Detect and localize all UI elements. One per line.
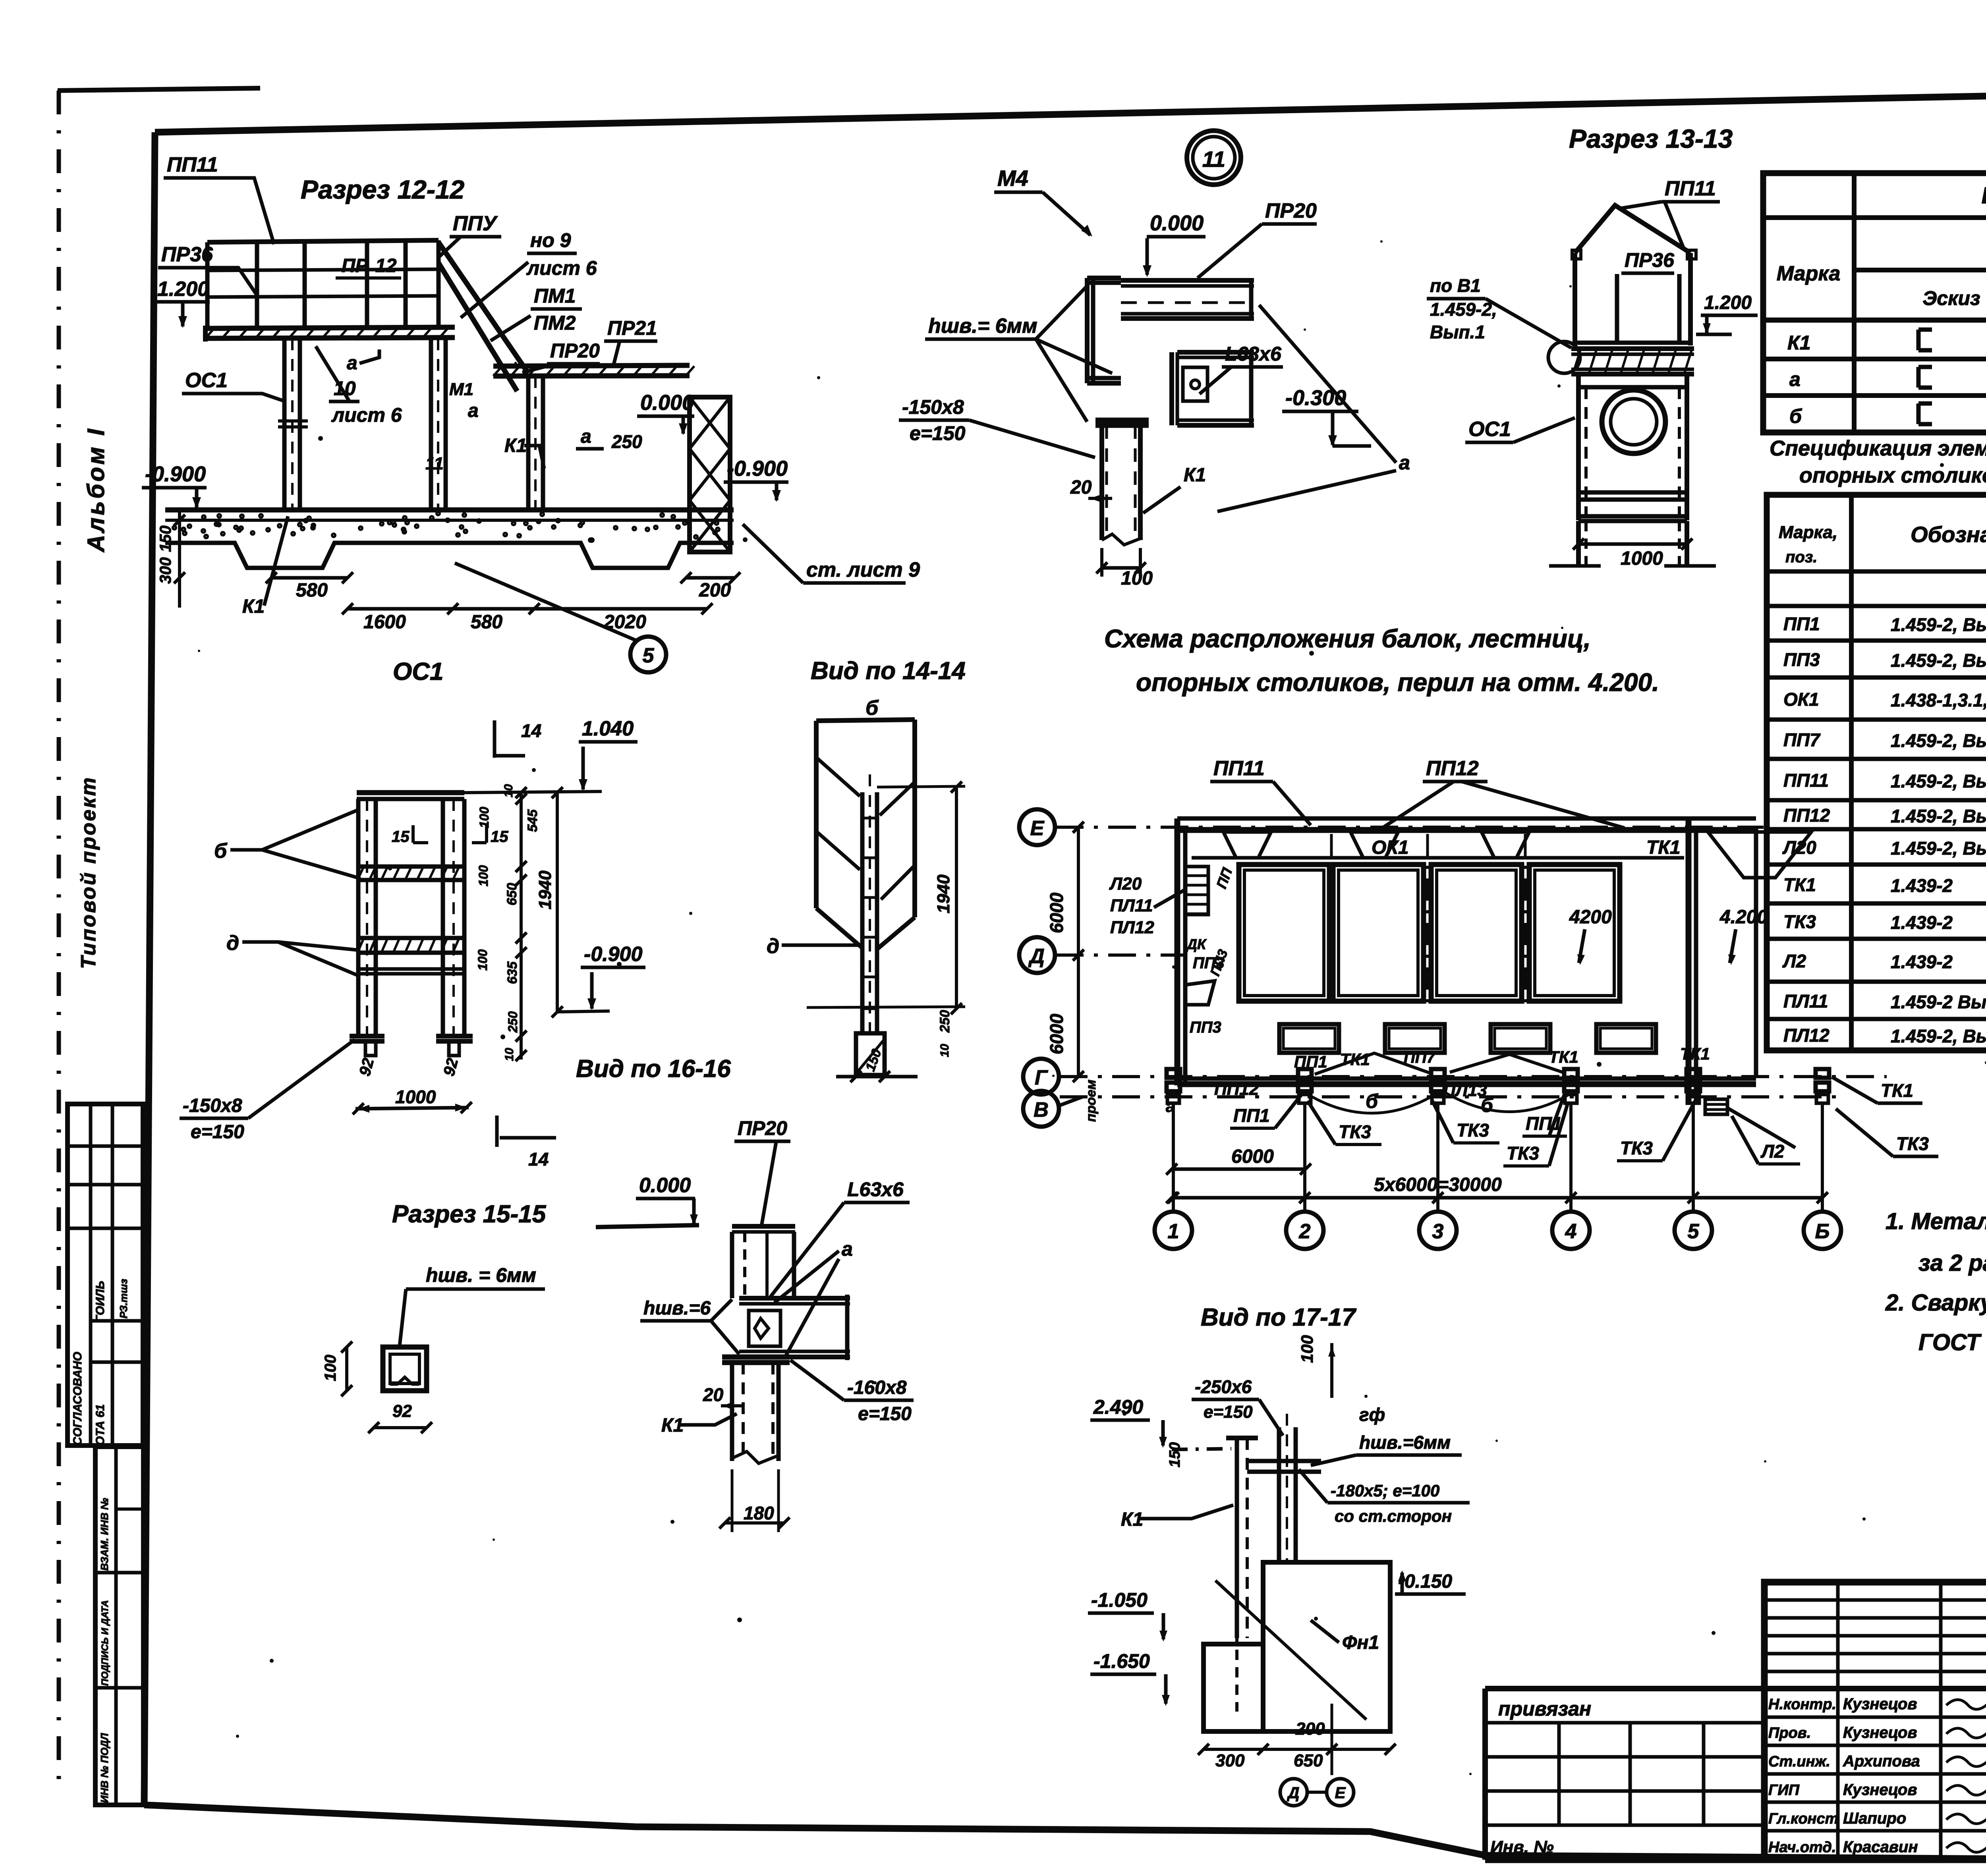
svg-text:ГИП: ГИП [1768, 1782, 1800, 1799]
svg-text:-0.300: -0.300 [1285, 386, 1346, 410]
svg-text:ОТА 61: ОТА 61 [94, 1404, 107, 1446]
svg-text:ПП1: ПП1 [1294, 1052, 1327, 1071]
svg-text:250: 250 [506, 1011, 520, 1033]
svg-text:Нач.отд.: Нач.отд. [1768, 1839, 1836, 1856]
svg-text:ПП1: ПП1 [1783, 614, 1820, 634]
svg-text:ПП12: ПП12 [1783, 805, 1830, 826]
svg-text:-0.900: -0.900 [727, 457, 788, 481]
svg-text:ПР20: ПР20 [550, 340, 600, 362]
svg-text:а: а [1166, 1097, 1175, 1116]
svg-text:Е: Е [1030, 817, 1045, 840]
svg-text:но 9: но 9 [530, 229, 571, 251]
svg-text:Ведомость: Ведомость [1982, 183, 1986, 208]
svg-text:лист 6: лист 6 [526, 257, 597, 279]
svg-text:545: 545 [525, 809, 540, 832]
svg-text:Г: Г [1035, 1066, 1048, 1089]
svg-text:4200: 4200 [1569, 907, 1612, 928]
svg-text:ПП1: ПП1 [1233, 1105, 1270, 1126]
svg-text:4: 4 [1565, 1220, 1577, 1243]
svg-text:Вып.1: Вып.1 [1430, 322, 1485, 342]
svg-text:0.000: 0.000 [639, 1174, 691, 1197]
svg-text:Вид по 16-16: Вид по 16-16 [576, 1055, 731, 1083]
svg-text:2020: 2020 [603, 612, 646, 633]
svg-text:Альбом I: Альбом I [83, 427, 109, 553]
svg-text:ТК3: ТК3 [1783, 911, 1816, 932]
svg-text:1000: 1000 [395, 1087, 436, 1107]
svg-text:5: 5 [643, 644, 655, 667]
svg-text:Е: Е [1335, 1784, 1346, 1802]
svg-text:ПП11: ПП11 [167, 153, 218, 176]
svg-text:проем: проем [1084, 1080, 1099, 1122]
svg-text:100: 100 [322, 1355, 339, 1381]
svg-text:100: 100 [476, 865, 491, 886]
svg-text:К1: К1 [1121, 1509, 1143, 1530]
svg-text:Ст.инж.: Ст.инж. [1768, 1753, 1830, 1770]
svg-text:2: 2 [1299, 1220, 1311, 1243]
svg-text:hшв.=6: hшв.=6 [643, 1298, 711, 1319]
svg-text:б: б [865, 697, 879, 720]
svg-text:1000: 1000 [1621, 548, 1663, 569]
svg-text:Марка,: Марка, [1779, 523, 1837, 542]
svg-text:б: б [214, 840, 228, 863]
svg-text:200: 200 [699, 580, 731, 601]
svg-text:20: 20 [703, 1384, 724, 1405]
svg-text:14: 14 [521, 720, 541, 741]
svg-text:6000: 6000 [1046, 1013, 1067, 1054]
svg-text:1.459-2, Вып.2: 1.459-2, Вып.2 [1891, 614, 1986, 635]
svg-text:Инв. №: Инв. № [1490, 1837, 1554, 1857]
svg-text:1940: 1940 [535, 870, 555, 909]
svg-text:1. Металлоконструкции покрасит: 1. Металлоконструкции покрасить масляной… [1886, 1208, 1986, 1234]
svg-text:Разрез 15-15: Разрез 15-15 [392, 1200, 547, 1228]
svg-text:15: 15 [392, 828, 410, 845]
svg-text:ПОДПИСЬ И ДАТА: ПОДПИСЬ И ДАТА [100, 1600, 110, 1686]
svg-text:Кузнецов: Кузнецов [1843, 1695, 1917, 1713]
svg-text:L63x6: L63x6 [1225, 343, 1282, 365]
svg-text:опорных столиков, перил на отм: опорных столиков, перил на отм. 4.200. [1136, 668, 1659, 697]
svg-text:hшв. = 6мм: hшв. = 6мм [426, 1264, 536, 1286]
svg-text:L63x6: L63x6 [847, 1178, 904, 1200]
svg-text:20: 20 [1070, 477, 1092, 498]
svg-text:Вид по 17-17: Вид по 17-17 [1201, 1304, 1356, 1331]
svg-text:11: 11 [425, 454, 444, 473]
svg-text:д: д [226, 932, 239, 955]
svg-text:-250x6: -250x6 [1195, 1376, 1252, 1397]
svg-text:ПП3: ПП3 [1190, 1019, 1221, 1036]
svg-text:6000: 6000 [1231, 1146, 1274, 1167]
svg-text:1.459-2, Вып.2: 1.459-2, Вып.2 [1891, 1026, 1986, 1046]
svg-text:1.200: 1.200 [157, 278, 209, 301]
svg-text:1.200: 1.200 [1704, 292, 1752, 313]
svg-text:1.459-2,: 1.459-2, [1430, 299, 1497, 320]
svg-text:15: 15 [491, 828, 508, 845]
svg-text:Эскиз: Эскиз [1922, 287, 1980, 309]
svg-text:Кузнецов: Кузнецов [1843, 1781, 1917, 1799]
svg-text:-0.900: -0.900 [145, 462, 206, 486]
svg-text:Разрез 12-12: Разрез 12-12 [301, 175, 465, 204]
svg-text:К1: К1 [1787, 332, 1811, 354]
svg-text:ПП3: ПП3 [1783, 649, 1820, 670]
svg-text:ОС1: ОС1 [185, 369, 228, 392]
svg-text:Обозначение: Обозначение [1911, 522, 1986, 547]
svg-text:ИНВ № ПОДЛ: ИНВ № ПОДЛ [99, 1733, 110, 1803]
svg-text:ВЗАМ. ИНВ №: ВЗАМ. ИНВ № [99, 1498, 110, 1571]
svg-text:М1: М1 [449, 380, 473, 399]
svg-text:ПП11: ПП11 [1213, 757, 1265, 780]
svg-text:РЗ.тшз: РЗ.тшз [118, 1279, 129, 1318]
svg-text:6000: 6000 [1046, 892, 1067, 933]
svg-text:ТК1: ТК1 [1646, 837, 1681, 858]
svg-text:ПР20: ПР20 [738, 1117, 787, 1139]
svg-text:Л2: Л2 [1782, 951, 1806, 971]
svg-text:Б: Б [1815, 1220, 1830, 1243]
svg-text:ПЛ13: ПЛ13 [1443, 1081, 1487, 1100]
svg-text:ОС1: ОС1 [393, 658, 443, 685]
svg-text:hшв.=6мм: hшв.=6мм [1359, 1432, 1451, 1453]
svg-text:Спецификация элементов к схеме: Спецификация элементов к схеме расположе… [1770, 436, 1986, 460]
svg-text:10: 10 [938, 1044, 951, 1057]
svg-text:150: 150 [1167, 1442, 1183, 1467]
svg-text:-180x5; е=100: -180x5; е=100 [1331, 1481, 1439, 1500]
svg-text:лист 6: лист 6 [331, 404, 402, 426]
svg-text:e=150: e=150 [910, 422, 966, 444]
svg-text:ТК3: ТК3 [1896, 1133, 1929, 1154]
svg-text:5x6000=30000: 5x6000=30000 [1374, 1174, 1502, 1195]
svg-text:ДК: ДК [1186, 936, 1207, 952]
svg-text:100: 100 [475, 949, 490, 971]
svg-text:10: 10 [503, 1048, 516, 1061]
svg-text:100: 100 [1298, 1335, 1316, 1363]
svg-text:12: 12 [375, 255, 397, 276]
svg-text:Н.контр.: Н.контр. [1768, 1696, 1836, 1713]
svg-text:К1: К1 [504, 435, 527, 456]
svg-text:М4: М4 [997, 166, 1028, 191]
svg-text:Марка: Марка [1777, 262, 1841, 285]
svg-text:200: 200 [1295, 1719, 1325, 1739]
svg-text:250: 250 [937, 1010, 952, 1033]
svg-text:ГОИЛЬ: ГОИЛЬ [94, 1281, 107, 1322]
svg-text:ТК1: ТК1 [1680, 1044, 1710, 1063]
svg-text:ППУ: ППУ [453, 212, 498, 235]
svg-text:ПЛ12: ПЛ12 [1110, 918, 1154, 937]
svg-text:ПМ1: ПМ1 [534, 285, 576, 307]
svg-text:Кузнецов: Кузнецов [1843, 1724, 1917, 1741]
svg-text:e=150: e=150 [191, 1121, 244, 1143]
svg-text:а: а [581, 426, 591, 447]
svg-text:ПП11: ПП11 [1783, 770, 1829, 791]
svg-text:580: 580 [471, 612, 502, 633]
svg-text:ПП7: ПП7 [1783, 730, 1821, 750]
svg-text:опорных столиков, перил на отм: опорных столиков, перил на отм. 4.200. [1799, 463, 1986, 487]
svg-text:по В1: по В1 [1430, 275, 1481, 296]
svg-text:ПЛ11: ПЛ11 [1783, 991, 1828, 1011]
svg-text:1.040: 1.040 [582, 717, 634, 740]
svg-text:ТК3: ТК3 [1620, 1138, 1653, 1158]
svg-text:ОК1: ОК1 [1372, 837, 1409, 858]
svg-text:ТК1: ТК1 [1549, 1048, 1578, 1066]
svg-text:В: В [1034, 1098, 1049, 1121]
svg-text:300: 300 [1215, 1751, 1245, 1770]
svg-text:Типовой проект: Типовой проект [77, 776, 100, 969]
svg-text:650: 650 [1294, 1751, 1323, 1770]
svg-text:а: а [1789, 368, 1801, 390]
svg-text:ТК3: ТК3 [1339, 1121, 1371, 1142]
svg-text:-160x8: -160x8 [847, 1377, 907, 1398]
svg-text:Шапиро: Шапиро [1843, 1810, 1906, 1827]
svg-text:ТК1: ТК1 [1783, 874, 1816, 895]
svg-text:ПР21: ПР21 [607, 317, 657, 339]
svg-text:1940: 1940 [934, 874, 953, 913]
svg-text:ОС1: ОС1 [1468, 418, 1511, 441]
svg-text:3: 3 [1432, 1220, 1444, 1243]
svg-text:10: 10 [502, 784, 515, 797]
svg-text:-150x8: -150x8 [902, 396, 964, 418]
svg-text:ПР36: ПР36 [1625, 249, 1675, 271]
svg-text:-0.150: -0.150 [1398, 1571, 1452, 1592]
svg-text:650: 650 [504, 883, 520, 905]
svg-text:ПМ2: ПМ2 [534, 312, 576, 334]
svg-text:Л2: Л2 [1760, 1141, 1785, 1162]
svg-text:2.490: 2.490 [1093, 1396, 1143, 1418]
svg-text:1.439-2: 1.439-2 [1891, 952, 1953, 972]
svg-text:со ст.сторон: со ст.сторон [1335, 1507, 1452, 1525]
svg-text:ТК1: ТК1 [1881, 1080, 1913, 1101]
svg-text:1.459-2 Вып.2: 1.459-2 Вып.2 [1891, 992, 1986, 1012]
svg-text:300: 300 [157, 557, 174, 584]
svg-text:д: д [767, 935, 779, 958]
svg-text:ПП11: ПП11 [1665, 177, 1716, 200]
svg-text:а: а [468, 400, 479, 421]
svg-text:гф: гф [1359, 1404, 1385, 1425]
svg-text:ПР: ПР [342, 255, 369, 276]
svg-text:11: 11 [1202, 147, 1225, 172]
svg-text:привязан: привязан [1498, 1698, 1591, 1720]
svg-text:5: 5 [1688, 1220, 1700, 1243]
svg-text:2. Сварку производить электрод: 2. Сварку производить электродами Э-42 [1885, 1290, 1986, 1316]
svg-text:ГОСТ 9467-75, Высота шва 6мм.: ГОСТ 9467-75, Высота шва 6мм. [1918, 1330, 1986, 1355]
svg-text:ПП12: ПП12 [1426, 757, 1479, 780]
svg-text:1.459-2, Вып.2: 1.459-2, Вып.2 [1891, 650, 1986, 671]
svg-text:Пров.: Пров. [1768, 1725, 1811, 1741]
svg-text:ТК3: ТК3 [1507, 1143, 1539, 1164]
svg-text:hшв.= 6мм: hшв.= 6мм [928, 315, 1037, 338]
svg-text:e=150: e=150 [858, 1403, 912, 1424]
svg-text:-1.650: -1.650 [1093, 1650, 1150, 1672]
svg-text:Д: Д [1287, 1784, 1300, 1802]
svg-text:Фн1: Фн1 [1342, 1632, 1379, 1653]
svg-text:ОК1: ОК1 [1783, 689, 1819, 710]
svg-text:92: 92 [392, 1401, 412, 1421]
svg-text:а: а [347, 353, 357, 374]
svg-text:ПЛ12: ПЛ12 [1783, 1025, 1830, 1046]
svg-text:Схема расположения балок, лест: Схема расположения балок, лестниц, [1104, 624, 1591, 653]
svg-text:1.459-2, Вып.2: 1.459-2, Вып.2 [1891, 730, 1986, 751]
svg-text:ПП7: ПП7 [1404, 1049, 1436, 1066]
svg-text:4.200: 4.200 [1719, 907, 1768, 928]
svg-text:635: 635 [505, 961, 520, 984]
svg-text:1.459-2, Вып.2: 1.459-2, Вып.2 [1891, 771, 1986, 791]
svg-text:Л20: Л20 [1109, 874, 1142, 894]
svg-text:Красавин: Красавин [1843, 1838, 1918, 1856]
svg-text:СОГЛАСОВАНО: СОГЛАСОВАНО [71, 1352, 84, 1446]
svg-text:1.459-2, Вып.2: 1.459-2, Вып.2 [1891, 806, 1986, 826]
svg-text:ПП12: ПП12 [1214, 1079, 1259, 1099]
svg-text:е=150: е=150 [1204, 1402, 1253, 1422]
svg-text:-0.900: -0.900 [584, 943, 643, 966]
svg-text:1600: 1600 [363, 612, 406, 633]
svg-text:Д: Д [1028, 945, 1045, 968]
svg-text:поз.: поз. [1785, 548, 1817, 566]
svg-text:1.439-2: 1.439-2 [1891, 912, 1953, 933]
svg-text:1.459-2, Вып.2: 1.459-2, Вып.2 [1891, 838, 1986, 859]
svg-text:-1.050: -1.050 [1091, 1589, 1148, 1611]
svg-text:Разрез 13-13: Разрез 13-13 [1569, 124, 1733, 153]
svg-text:Гл.конст: Гл.конст [1768, 1810, 1838, 1827]
svg-text:-150x8: -150x8 [183, 1095, 242, 1116]
svg-text:1.438-1,3.1, Вып.1: 1.438-1,3.1, Вып.1 [1891, 690, 1986, 710]
svg-text:ПР36: ПР36 [161, 243, 213, 266]
svg-text:а: а [1399, 452, 1410, 474]
svg-text:580: 580 [296, 580, 328, 601]
svg-text:б: б [1789, 405, 1802, 427]
svg-text:100: 100 [477, 807, 491, 828]
svg-text:К1: К1 [1184, 465, 1206, 486]
svg-text:0.000: 0.000 [1150, 211, 1204, 235]
svg-text:180: 180 [744, 1503, 774, 1523]
svg-text:0.000: 0.000 [640, 391, 694, 415]
svg-text:а: а [842, 1238, 853, 1260]
svg-text:ст. лист 9: ст. лист 9 [806, 558, 920, 581]
svg-text:14: 14 [528, 1149, 549, 1170]
svg-text:1: 1 [1168, 1220, 1179, 1243]
svg-text:К1: К1 [242, 596, 265, 617]
svg-text:ТК3: ТК3 [1457, 1120, 1489, 1141]
svg-text:ПЛ11: ПЛ11 [1110, 896, 1153, 915]
svg-text:1.439-2: 1.439-2 [1891, 875, 1953, 896]
svg-text:б: б [1366, 1090, 1379, 1112]
svg-text:за 2 раза (ГОСТ 695-77) по о: за 2 раза (ГОСТ 695-77) по огрунтовке. [1918, 1250, 1986, 1276]
svg-text:Архипова: Архипова [1843, 1752, 1920, 1770]
svg-text:ПР20: ПР20 [1265, 199, 1317, 222]
svg-text:Вид по 14-14: Вид по 14-14 [811, 657, 966, 685]
svg-text:250: 250 [611, 431, 642, 452]
svg-text:150: 150 [157, 525, 174, 552]
